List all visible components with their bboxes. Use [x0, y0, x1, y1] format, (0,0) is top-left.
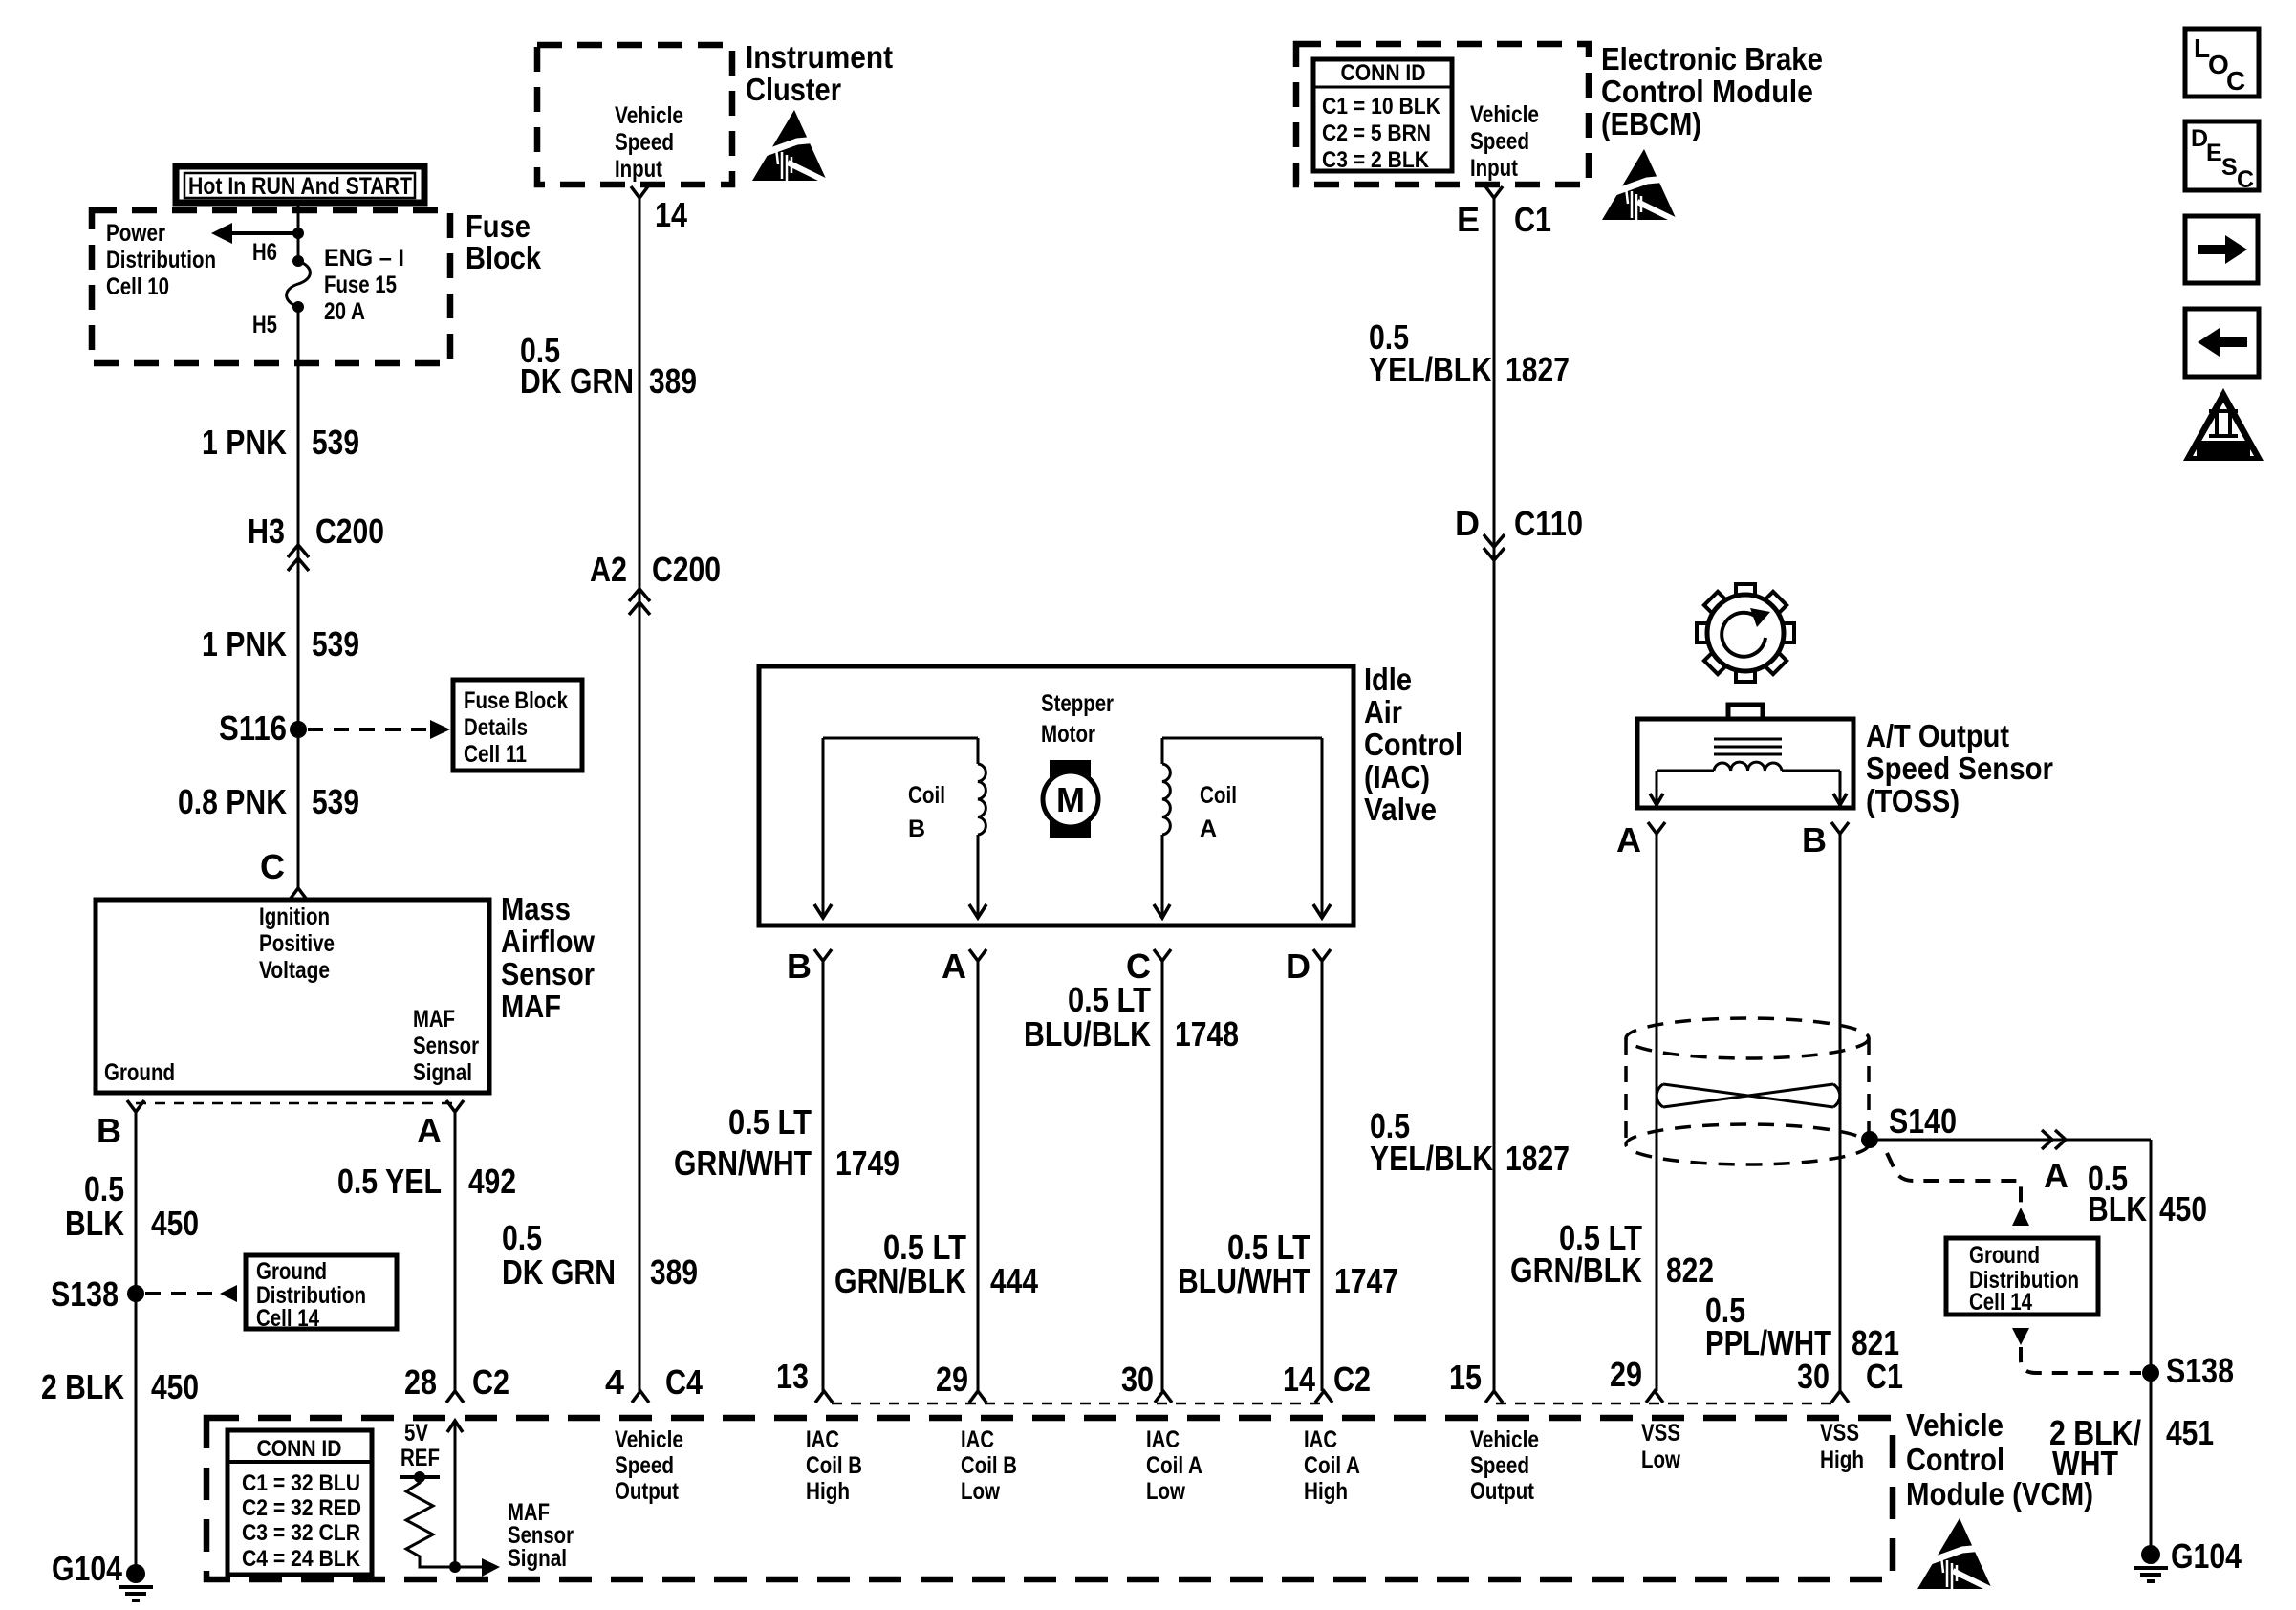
svg-text:C200: C200 [652, 550, 721, 589]
svg-text:Coil A: Coil A [1146, 1452, 1202, 1479]
svg-text:Instrument: Instrument [746, 39, 893, 75]
svg-text:Signal: Signal [508, 1545, 567, 1572]
svg-text:4: 4 [605, 1362, 624, 1402]
svg-text:Speed: Speed [615, 129, 674, 156]
svg-text:Module (VCM): Module (VCM) [1906, 1476, 2093, 1512]
svg-text:Coil B: Coil B [961, 1452, 1017, 1479]
svg-text:Mass: Mass [501, 891, 571, 926]
svg-text:Fuse: Fuse [466, 208, 531, 244]
svg-text:High: High [806, 1478, 850, 1505]
svg-text:Vehicle: Vehicle [1470, 101, 1539, 128]
svg-text:Coil: Coil [1200, 782, 1237, 809]
svg-text:Input: Input [615, 156, 663, 183]
svg-text:D: D [1455, 504, 1480, 543]
svg-text:A2: A2 [590, 550, 627, 589]
svg-text:G104: G104 [2171, 1536, 2242, 1576]
svg-text:Ground: Ground [1969, 1242, 2040, 1269]
svg-text:IAC: IAC [961, 1426, 994, 1453]
svg-text:30: 30 [1797, 1357, 1830, 1396]
svg-text:BLU/WHT: BLU/WHT [1178, 1261, 1310, 1300]
svg-text:Output: Output [615, 1478, 680, 1505]
svg-text:1748: 1748 [1175, 1014, 1239, 1054]
svg-text:C4 = 24 BLK: C4 = 24 BLK [242, 1546, 361, 1572]
svg-text:Coil: Coil [908, 782, 945, 809]
svg-text:C1: C1 [1866, 1357, 1903, 1396]
svg-text:C200: C200 [315, 511, 384, 551]
svg-text:B: B [787, 946, 812, 986]
svg-text:C110: C110 [1514, 504, 1583, 543]
svg-text:Speed: Speed [1470, 128, 1529, 155]
svg-text:Block: Block [466, 240, 542, 275]
svg-text:C: C [2226, 66, 2245, 96]
svg-text:C3 = 32 CLR: C3 = 32 CLR [242, 1520, 360, 1546]
svg-text:BLK: BLK [65, 1204, 124, 1243]
svg-text:B: B [1802, 820, 1827, 859]
svg-text:E: E [2206, 140, 2222, 166]
svg-text:Electronic Brake: Electronic Brake [1601, 41, 1823, 76]
svg-text:5V: 5V [404, 1420, 428, 1447]
svg-text:450: 450 [2159, 1189, 2207, 1229]
svg-text:C2 = 5 BRN: C2 = 5 BRN [1322, 120, 1431, 146]
svg-text:MAF: MAF [501, 989, 561, 1024]
svg-text:1 PNK: 1 PNK [202, 423, 287, 462]
svg-text:Valve: Valve [1364, 792, 1437, 827]
svg-text:1749: 1749 [835, 1143, 899, 1183]
svg-text:0.5: 0.5 [502, 1218, 542, 1257]
svg-text:Vehicle: Vehicle [615, 102, 683, 129]
svg-text:Speed: Speed [615, 1452, 674, 1479]
svg-text:0.8 PNK: 0.8 PNK [178, 782, 287, 821]
svg-text:539: 539 [312, 624, 359, 664]
svg-text:IAC: IAC [806, 1426, 839, 1453]
svg-text:Vehicle: Vehicle [615, 1426, 683, 1453]
svg-text:BLU/BLK: BLU/BLK [1024, 1014, 1151, 1054]
svg-text:1827: 1827 [1505, 1139, 1570, 1178]
svg-text:30: 30 [1121, 1360, 1154, 1399]
svg-text:C4: C4 [665, 1362, 703, 1402]
svg-text:Control: Control [1906, 1442, 2004, 1477]
svg-text:0.5 YEL: 0.5 YEL [337, 1162, 442, 1201]
svg-text:GRN/BLK: GRN/BLK [1510, 1251, 1642, 1290]
svg-text:Airflow: Airflow [501, 924, 595, 959]
svg-text:E: E [1457, 200, 1480, 239]
svg-text:Cell 14: Cell 14 [1969, 1289, 2032, 1316]
svg-text:ENG – I: ENG – I [324, 245, 404, 272]
svg-text:Low: Low [1641, 1447, 1680, 1473]
svg-text:Hot In RUN And START: Hot In RUN And START [188, 173, 412, 200]
svg-text:Cell 10: Cell 10 [106, 273, 169, 300]
svg-text:Control Module: Control Module [1601, 74, 1813, 109]
svg-text:C1: C1 [1514, 200, 1551, 239]
svg-text:Output: Output [1470, 1478, 1535, 1505]
svg-text:Cell 14: Cell 14 [256, 1305, 319, 1332]
svg-text:M: M [1056, 780, 1085, 819]
svg-text:OBD II: OBD II [2200, 442, 2246, 457]
svg-text:CONN ID: CONN ID [257, 1436, 342, 1462]
svg-text:Input: Input [1470, 155, 1519, 182]
svg-text:450: 450 [151, 1367, 199, 1406]
svg-text:S140: S140 [1889, 1101, 1957, 1141]
svg-text:Low: Low [961, 1478, 1000, 1505]
svg-text:29: 29 [936, 1360, 968, 1399]
svg-text:(TOSS): (TOSS) [1866, 783, 1960, 818]
svg-text:20 A: 20 A [324, 298, 365, 325]
svg-text:A: A [1200, 816, 1217, 842]
svg-text:YEL/BLK: YEL/BLK [1370, 1139, 1493, 1178]
svg-text:S138: S138 [51, 1274, 119, 1314]
svg-text:389: 389 [649, 361, 697, 401]
svg-text:C: C [2237, 166, 2254, 193]
svg-text:Motor: Motor [1041, 721, 1095, 748]
svg-text:Fuse Block: Fuse Block [464, 687, 568, 714]
svg-text:451: 451 [2166, 1413, 2214, 1452]
svg-text:S: S [2221, 154, 2238, 181]
svg-text:Low: Low [1146, 1478, 1185, 1505]
svg-text:1747: 1747 [1334, 1261, 1398, 1300]
svg-text:0.5: 0.5 [84, 1169, 124, 1208]
svg-text:Ignition: Ignition [259, 903, 330, 930]
svg-text:15: 15 [1449, 1358, 1482, 1397]
svg-text:Distribution: Distribution [106, 247, 216, 273]
svg-text:0.5 LT: 0.5 LT [1068, 980, 1151, 1019]
svg-text:S116: S116 [219, 708, 287, 748]
svg-text:IAC: IAC [1304, 1426, 1337, 1453]
svg-text:DK GRN: DK GRN [520, 361, 634, 401]
svg-text:Ground: Ground [104, 1059, 175, 1086]
svg-text:Control: Control [1364, 727, 1462, 762]
svg-text:A: A [2044, 1156, 2069, 1195]
svg-text:539: 539 [312, 782, 359, 821]
svg-text:539: 539 [312, 423, 359, 462]
svg-text:C1 = 10 BLK: C1 = 10 BLK [1322, 94, 1441, 120]
svg-text:B: B [908, 816, 925, 842]
svg-text:Coil A: Coil A [1304, 1452, 1360, 1479]
svg-text:444: 444 [990, 1261, 1038, 1300]
svg-text:1827: 1827 [1505, 350, 1570, 389]
svg-text:Signal: Signal [413, 1059, 472, 1086]
svg-text:Speed Sensor: Speed Sensor [1866, 751, 2053, 786]
svg-text:C2 = 32 RED: C2 = 32 RED [242, 1495, 361, 1521]
svg-text:Fuse 15: Fuse 15 [324, 272, 397, 298]
svg-text:C3 = 2 BLK: C3 = 2 BLK [1322, 147, 1430, 173]
svg-text:DK GRN: DK GRN [502, 1252, 616, 1292]
svg-text:VSS: VSS [1641, 1420, 1680, 1447]
svg-text:Details: Details [464, 714, 528, 741]
svg-text:Idle: Idle [1364, 662, 1412, 697]
svg-text:B: B [97, 1111, 121, 1150]
svg-text:Power: Power [106, 220, 165, 247]
svg-text:IAC: IAC [1146, 1426, 1180, 1453]
svg-text:C2: C2 [1333, 1360, 1371, 1399]
svg-text:D: D [1286, 946, 1310, 986]
svg-text:389: 389 [650, 1252, 698, 1292]
svg-text:BLK: BLK [2088, 1189, 2147, 1229]
svg-text:S138: S138 [2166, 1351, 2234, 1390]
svg-text:1 PNK: 1 PNK [202, 624, 287, 664]
svg-text:0.5 LT: 0.5 LT [728, 1102, 812, 1142]
svg-text:Sensor: Sensor [413, 1033, 479, 1059]
svg-text:G104: G104 [52, 1549, 122, 1588]
svg-text:Coil B: Coil B [806, 1452, 862, 1479]
svg-text:Speed: Speed [1470, 1452, 1529, 1479]
svg-text:H3: H3 [248, 511, 285, 551]
svg-text:Sensor: Sensor [501, 956, 595, 991]
svg-text:A: A [942, 946, 966, 986]
svg-text:Ground: Ground [256, 1258, 327, 1285]
svg-text:28: 28 [404, 1362, 437, 1402]
svg-text:2 BLK: 2 BLK [41, 1367, 124, 1406]
svg-text:A: A [417, 1111, 442, 1150]
svg-text:REF: REF [401, 1445, 440, 1471]
svg-text:H5: H5 [252, 312, 277, 338]
svg-text:GRN/BLK: GRN/BLK [834, 1261, 966, 1300]
svg-text:A/T Output: A/T Output [1866, 718, 2009, 753]
svg-text:14: 14 [1283, 1360, 1315, 1399]
svg-text:Cell 11: Cell 11 [464, 741, 527, 768]
svg-text:(IAC): (IAC) [1364, 759, 1430, 794]
svg-text:13: 13 [776, 1357, 809, 1396]
svg-text:VSS: VSS [1820, 1420, 1859, 1447]
svg-text:Vehicle: Vehicle [1906, 1407, 2004, 1443]
svg-text:MAF: MAF [413, 1006, 455, 1033]
svg-text:14: 14 [655, 195, 687, 234]
svg-text:450: 450 [151, 1204, 199, 1243]
svg-text:High: High [1304, 1478, 1348, 1505]
svg-text:29: 29 [1610, 1355, 1642, 1394]
svg-text:(EBCM): (EBCM) [1601, 106, 1701, 141]
svg-text:A: A [1616, 820, 1641, 859]
svg-text:Positive: Positive [259, 930, 335, 957]
svg-text:822: 822 [1666, 1251, 1714, 1290]
svg-text:High: High [1820, 1447, 1864, 1473]
svg-text:Cluster: Cluster [746, 72, 841, 107]
svg-text:H6: H6 [252, 239, 277, 266]
svg-text:C2: C2 [472, 1362, 509, 1402]
svg-text:YEL/BLK: YEL/BLK [1369, 350, 1492, 389]
svg-text:C: C [260, 847, 285, 886]
svg-text:CONN ID: CONN ID [1341, 60, 1426, 86]
svg-text:492: 492 [468, 1162, 516, 1201]
svg-text:C1 = 32 BLU: C1 = 32 BLU [242, 1470, 360, 1496]
svg-text:Air: Air [1364, 694, 1402, 729]
svg-text:Stepper: Stepper [1041, 690, 1114, 717]
svg-text:Vehicle: Vehicle [1470, 1426, 1539, 1453]
svg-text:Voltage: Voltage [259, 957, 330, 984]
svg-text:GRN/WHT: GRN/WHT [674, 1143, 812, 1183]
